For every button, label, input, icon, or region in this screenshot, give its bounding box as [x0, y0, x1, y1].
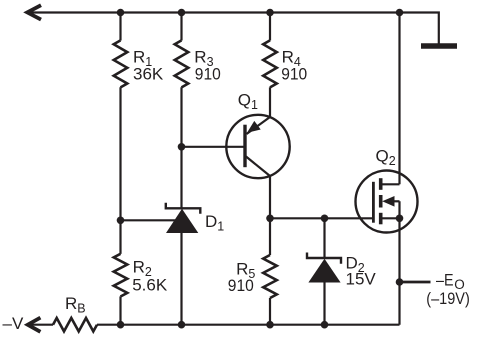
- svg-text:D1: D1: [205, 212, 224, 234]
- svg-text:910: 910: [228, 276, 254, 295]
- svg-text:910: 910: [281, 64, 307, 83]
- svg-text:–E: –E: [436, 271, 454, 290]
- svg-text:Q1: Q1: [238, 90, 258, 112]
- svg-text:36K: 36K: [133, 64, 164, 83]
- svg-text:Q2: Q2: [376, 147, 396, 169]
- svg-text:–V: –V: [3, 314, 24, 333]
- svg-text:RB: RB: [65, 294, 86, 316]
- svg-text:910: 910: [195, 64, 221, 83]
- svg-text:(–19V): (–19V): [426, 289, 470, 308]
- svg-text:15V: 15V: [346, 270, 377, 289]
- svg-text:5.6K: 5.6K: [132, 276, 168, 295]
